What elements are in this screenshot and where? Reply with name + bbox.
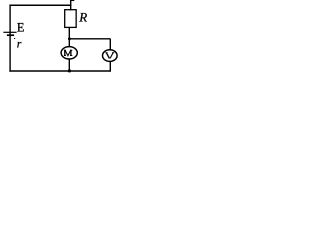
voltmeter V [103,50,118,62]
wire bottom horizontal [9,70,111,72]
wire artifact top edge [70,0,74,2]
wire left vertical lower [9,36,11,72]
wire left vertical upper [9,5,11,35]
motor M [61,47,77,59]
wire motor bottom [68,59,70,72]
svg-text:R: R [78,10,87,25]
wire voltmeter top stub [109,39,111,51]
node junction dot lower [68,69,71,72]
svg-text:E: E [17,21,25,35]
battery E long plate [3,31,16,33]
wire branch horizontal to voltmeter [69,38,110,40]
label V [105,53,114,59]
wire resistor top stub [70,0,72,10]
wire resistor bottom to motor [68,27,70,47]
wire top horizontal [9,4,71,6]
svg-text:r: r [17,37,22,51]
battery short plate [7,34,14,36]
resistor R [65,10,76,28]
node junction dot upper [68,37,71,40]
stray mark [14,37,15,40]
label M [64,50,72,56]
wire voltmeter bottom [109,61,111,72]
